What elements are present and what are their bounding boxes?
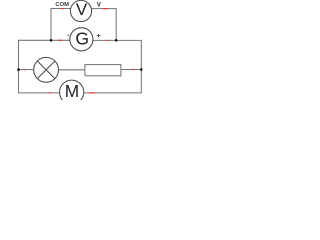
terminal red tick: resistor right [132, 69, 135, 71]
node: junction lamp branch / left side [17, 68, 20, 71]
galvanometer G circle [70, 28, 93, 51]
wire: motor to bottom right [83, 92, 141, 94]
lamp circle [34, 57, 59, 82]
wire: right stub from voltmeter V terminal to right riser down to G row [91, 9, 116, 41]
motor M circle [60, 80, 84, 104]
terminal red tick: galvanometer plus [106, 39, 109, 41]
label plus (G right) [97, 34, 101, 38]
wire: G row right segment [93, 39, 141, 41]
lamp cross [37, 61, 55, 79]
terminal red tick: motor left [49, 92, 52, 94]
resistor R rectangle [85, 65, 121, 76]
svg-text:COM: COM [55, 2, 69, 8]
voltmeter U1 circle [70, 0, 91, 21]
wire: bottom left lead to motor [19, 92, 61, 94]
wire: G row left segment [19, 39, 71, 41]
wire: right vertical side [140, 40, 142, 94]
wire: lamp to resistor lead [58, 69, 85, 71]
svg-text:M: M [65, 81, 79, 100]
label minus (G left) [67, 34, 69, 36]
node: junction right riser / G row [115, 39, 118, 42]
terminal red tick: motor right [89, 92, 95, 94]
svg-text:G: G [75, 29, 89, 49]
terminal red tick: galvanometer minus [59, 39, 63, 41]
wire: left vertical side [18, 40, 20, 94]
wire: left riser from voltmeter COM stub down to G row [51, 9, 71, 41]
wire: lamp branch left lead [19, 69, 35, 71]
svg-text:V: V [97, 1, 102, 8]
node: junction left riser / G row [50, 39, 53, 42]
terminal red tick: lamp left [24, 69, 26, 71]
terminal red tick: voltmeter V [103, 8, 108, 10]
terminal red tick: voltmeter COM [60, 8, 64, 10]
svg-text:V: V [76, 0, 88, 19]
node: junction resistor branch / right side [140, 68, 143, 71]
wire: resistor right lead to right side [121, 69, 141, 71]
